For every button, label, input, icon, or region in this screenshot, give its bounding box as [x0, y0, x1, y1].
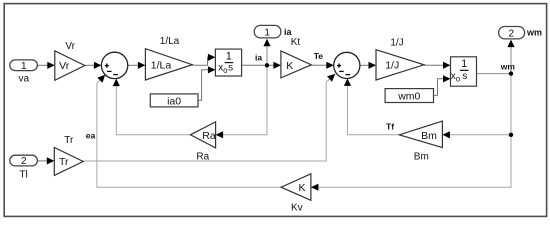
svg-text:K: K [286, 60, 293, 72]
svg-text:Tf: Tf [386, 122, 394, 132]
svg-text:Kv: Kv [291, 203, 303, 214]
svg-text:Tl: Tl [19, 169, 27, 180]
svg-text:va: va [19, 74, 30, 85]
svg-text:o: o [456, 74, 461, 83]
svg-text:s: s [462, 71, 467, 82]
svg-text:1: 1 [21, 61, 27, 72]
svg-text:Vr: Vr [65, 41, 75, 52]
svg-text:1/J: 1/J [390, 37, 403, 48]
svg-text:ia: ia [255, 52, 262, 62]
svg-text:2: 2 [21, 156, 27, 167]
svg-text:wm0: wm0 [397, 91, 420, 103]
svg-text:Kt: Kt [291, 37, 301, 48]
svg-text:s: s [228, 63, 233, 74]
svg-text:ea: ea [86, 130, 96, 140]
svg-text:Bm: Bm [414, 151, 429, 162]
svg-text:1/La: 1/La [160, 36, 180, 47]
svg-text:Ra: Ra [202, 130, 216, 142]
svg-text:Tr: Tr [64, 135, 74, 146]
svg-text:2: 2 [509, 29, 515, 40]
svg-text:1: 1 [461, 58, 467, 70]
svg-text:ia: ia [284, 27, 293, 37]
svg-text:1/J: 1/J [385, 60, 399, 72]
svg-text:wm: wm [500, 61, 516, 71]
svg-text:wm: wm [526, 28, 542, 38]
svg-text:Te: Te [314, 51, 324, 61]
svg-text:1: 1 [226, 51, 232, 63]
svg-text:ia0: ia0 [167, 95, 181, 107]
svg-text:1/La: 1/La [151, 60, 172, 72]
svg-text:Tr: Tr [59, 156, 69, 168]
svg-text:Vr: Vr [59, 60, 70, 72]
svg-text:1: 1 [264, 27, 270, 38]
svg-text:Bm: Bm [421, 130, 437, 142]
svg-text:K: K [298, 182, 305, 194]
svg-text:Ra: Ra [196, 152, 209, 163]
